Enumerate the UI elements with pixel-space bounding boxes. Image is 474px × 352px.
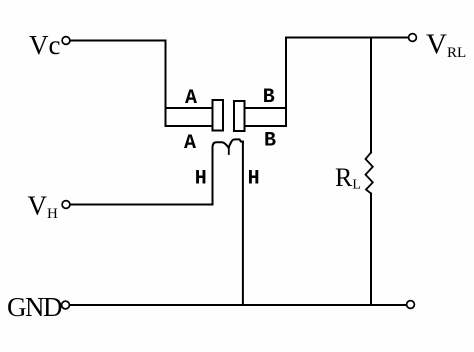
svg-text:GND: GND	[7, 292, 62, 322]
terminal GND right	[407, 301, 415, 309]
heater coil hump right	[229, 139, 243, 147]
terminal Vc	[62, 37, 70, 45]
svg-text:A: A	[184, 132, 196, 155]
heater lead left	[212, 148, 214, 205]
wire top to VRL terminal	[286, 37, 409, 39]
heater coil hump left	[213, 142, 229, 147]
wire GND rail	[70, 304, 407, 306]
resistor RL zigzag	[366, 153, 373, 194]
wire vertical up from electrode B	[285, 38, 287, 127]
sensor plate right	[234, 101, 245, 131]
terminal VH	[62, 201, 70, 209]
wire vertical down to electrode A	[165, 41, 167, 127]
svg-text:B: B	[264, 129, 276, 152]
svg-text:H: H	[248, 167, 260, 190]
svg-text:RL: RL	[335, 163, 361, 193]
wire VH terminal to heater	[70, 204, 213, 206]
svg-text:H: H	[195, 167, 207, 190]
svg-text:Vc: Vc	[29, 30, 60, 60]
heater coil centre tail	[228, 147, 230, 155]
sensor plate left	[213, 100, 224, 131]
terminal VRL	[409, 34, 417, 42]
svg-text:B: B	[263, 86, 275, 109]
heater lead right to GND rail	[242, 142, 244, 305]
electrode B bar (top edge)	[245, 107, 286, 109]
svg-text:A: A	[185, 87, 197, 110]
svg-text:VH: VH	[28, 191, 59, 223]
electrode B bar (bottom edge)	[245, 125, 286, 127]
terminal GND	[62, 301, 70, 309]
electrode A bar (top edge)	[166, 107, 213, 109]
wire Vc terminal to corner	[70, 40, 166, 42]
wire node to resistor RL	[370, 38, 372, 153]
wire resistor RL to GND rail	[370, 194, 372, 306]
svg-text:VRL: VRL	[426, 29, 466, 62]
electrode A bar (bottom edge)	[166, 125, 213, 127]
